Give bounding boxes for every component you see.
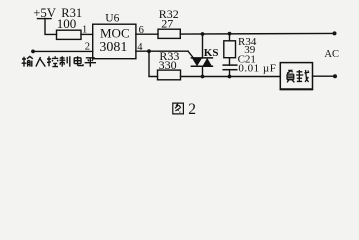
wire R34 to C21 <box>229 58 231 65</box>
wire +5V to R31 <box>45 19 57 35</box>
wire MT2 drop <box>202 34 204 58</box>
svg-text:U6: U6 <box>105 13 119 25</box>
wire triac MT1 drop <box>202 66 204 76</box>
控 <box>47 56 58 66</box>
电 <box>74 56 83 65</box>
node triac MT2 junction <box>201 32 205 36</box>
load box 负载 <box>280 63 312 90</box>
svg-text:6: 6 <box>139 25 144 36</box>
power bar <box>38 18 52 20</box>
svg-text:AC: AC <box>324 49 339 60</box>
wire load to AC bottom terminal <box>313 75 336 77</box>
svg-text:4: 4 <box>137 42 143 53</box>
svg-text:330: 330 <box>159 58 177 72</box>
wire bottom rail R33 to load <box>181 76 281 78</box>
wire junction to R34 <box>229 34 231 41</box>
node AC top terminal <box>333 31 337 35</box>
svg-text:2: 2 <box>188 101 196 118</box>
负 <box>287 70 294 82</box>
制 <box>59 56 69 66</box>
node MT1 junction <box>201 75 205 79</box>
图 <box>173 103 184 114</box>
svg-text:3081: 3081 <box>99 40 127 55</box>
node R34 junction <box>228 32 232 36</box>
载 <box>296 70 309 82</box>
wire input to U6 pin2 <box>33 42 93 53</box>
wire R31 to U6 pin1 <box>81 25 93 36</box>
triac KS <box>188 47 218 66</box>
resistor R33 <box>158 49 181 80</box>
wire U6 pin4 <box>136 42 188 53</box>
输 <box>22 56 33 66</box>
平 <box>85 58 96 67</box>
入 <box>36 57 45 67</box>
svg-text:0.01 µF: 0.01 µF <box>238 63 276 75</box>
svg-text:100: 100 <box>57 16 77 31</box>
node AC bottom terminal <box>333 74 337 78</box>
resistor R34 <box>224 36 257 58</box>
wire pin4 junction down to R33 <box>149 51 158 76</box>
wire C21 to bottom rail <box>229 70 231 77</box>
wire R32 to AC top terminal <box>180 32 334 35</box>
wire U6 pin6 to R32 <box>136 25 158 36</box>
capacitor C21 <box>223 54 276 75</box>
optocoupler U6 MOC3081 <box>93 13 136 59</box>
caption 图2 <box>173 101 196 118</box>
node input terminal <box>31 50 35 54</box>
svg-text:27: 27 <box>161 16 173 30</box>
svg-text:1: 1 <box>82 25 87 36</box>
resistor R32 <box>158 7 180 39</box>
svg-text:2: 2 <box>85 42 90 53</box>
label 输入控制电平 <box>22 56 96 67</box>
svg-text:KS: KS <box>204 47 219 59</box>
resistor R31 <box>57 6 83 40</box>
node C21 junction <box>228 75 232 79</box>
power +5V <box>33 6 57 20</box>
node pin4 junction <box>147 49 151 53</box>
svg-text:MOC: MOC <box>100 25 130 40</box>
